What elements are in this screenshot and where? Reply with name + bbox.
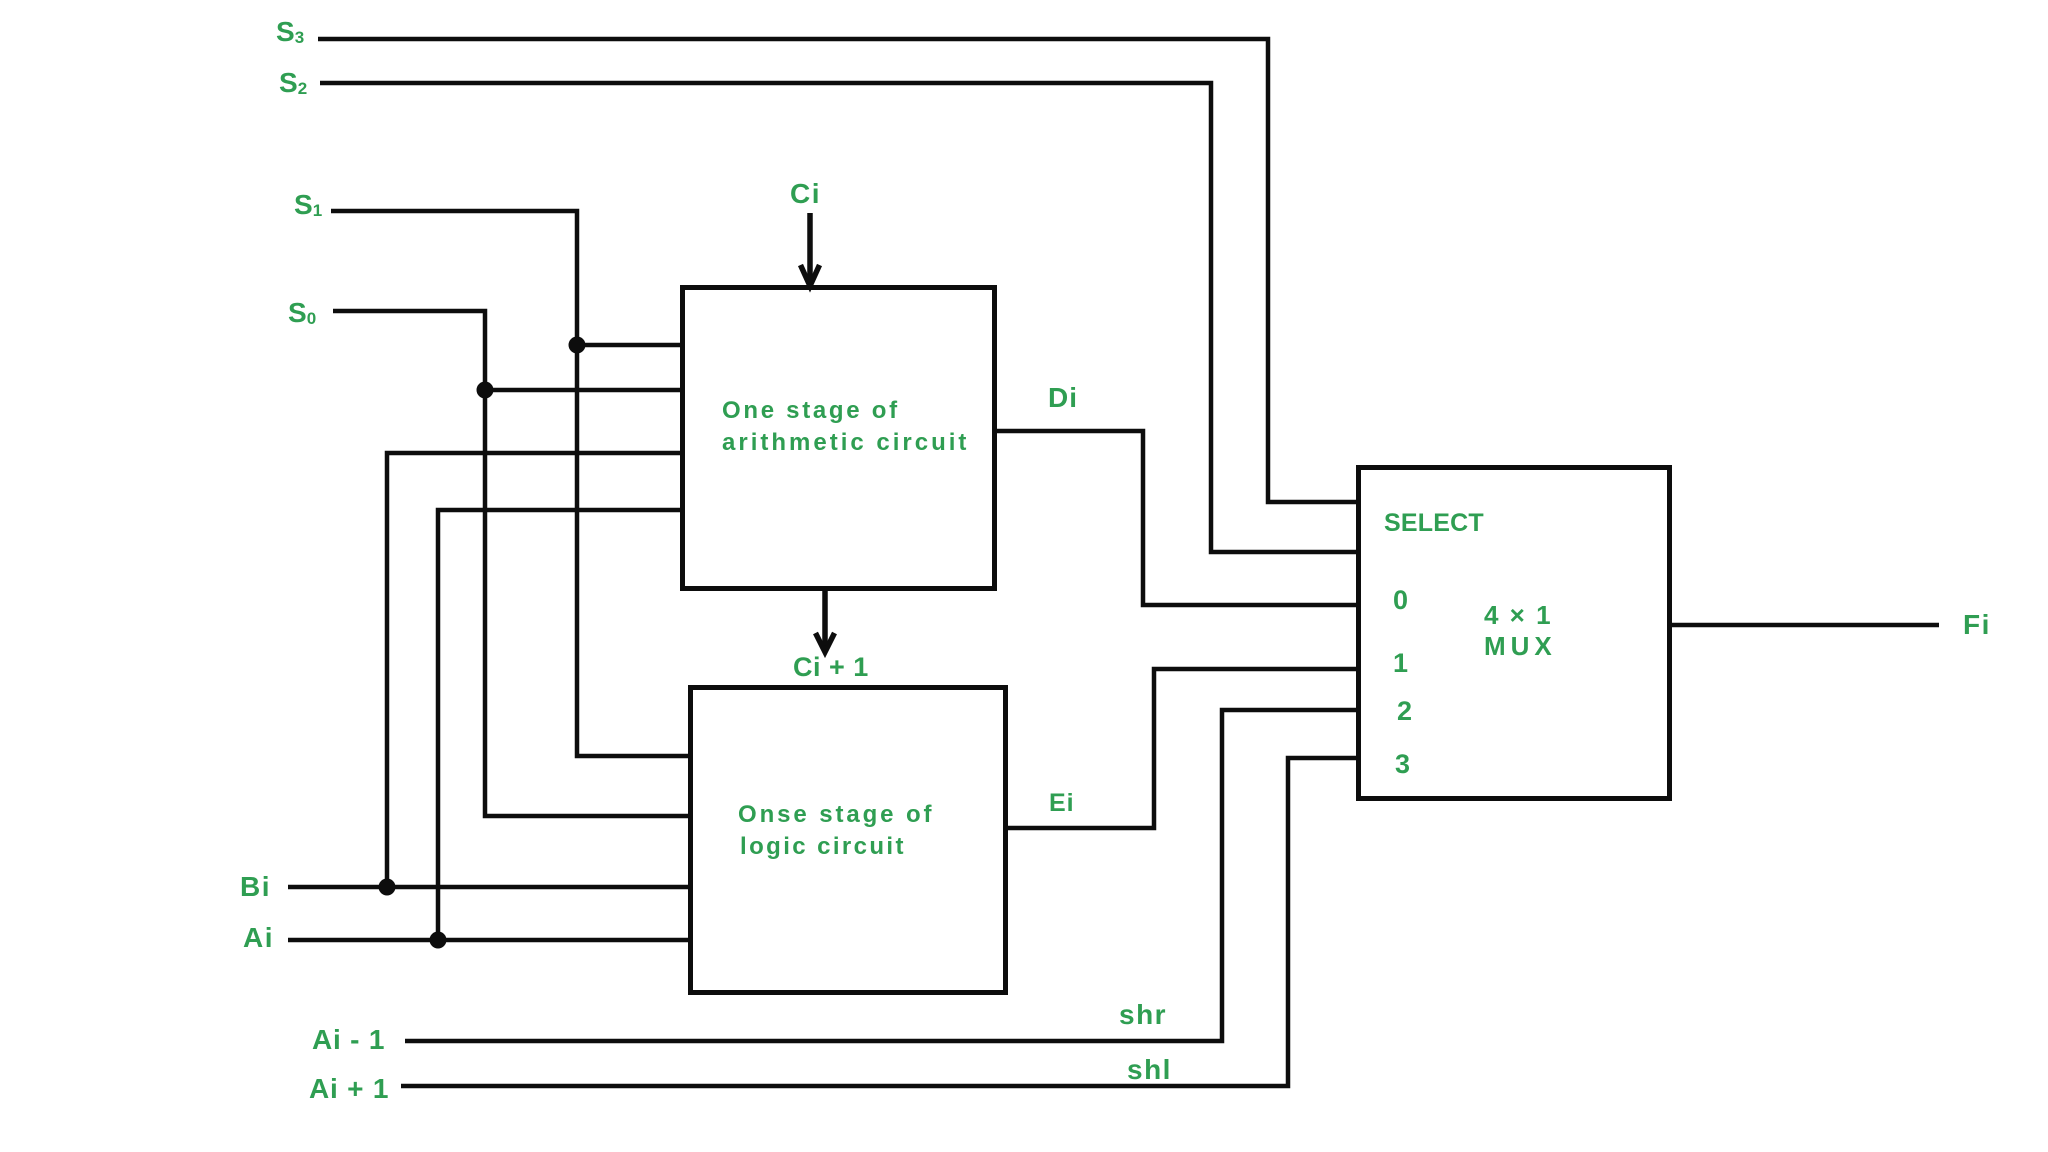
box U2 one stage of logic circuit [691, 688, 1006, 993]
wire S1 branch stub to arithmetic circuit input [577, 343, 682, 348]
wire Bi branch up to arithmetic circuit input [387, 453, 682, 887]
wire Ei: logic output to MUX input 1 [1008, 669, 1356, 828]
svg-text:Ci + 1: Ci + 1 [793, 652, 869, 682]
wire Ci+1 output arrow shaft [822, 591, 828, 649]
wire Bi horizontal into logic circuit [288, 885, 690, 890]
svg-text:S1: S1 [294, 189, 322, 220]
svg-text:4 × 1: 4 × 1 [1484, 600, 1553, 630]
wire S0 net: horizontal, vertical down to logic circuit input [333, 311, 690, 816]
wire Ai branch up to arithmetic circuit input [438, 510, 682, 940]
wire S3 net: horizontal run, vertical drop, into MUX SELECT [318, 39, 1356, 502]
wire Fi output [1672, 623, 1939, 628]
junction dot S1 branch [569, 337, 586, 354]
wire S1 net: horizontal, vertical down to logic circuit input [331, 211, 690, 756]
svg-text:1: 1 [1393, 648, 1408, 678]
svg-text:Ai: Ai [243, 922, 274, 953]
svg-text:2: 2 [1397, 696, 1412, 726]
svg-text:MUX: MUX [1484, 631, 1557, 661]
wire shl: Ai + 1 line to MUX input 3 [401, 758, 1356, 1086]
svg-text:S3: S3 [276, 16, 304, 47]
svg-text:Onse stage of: Onse stage of [738, 801, 934, 828]
svg-text:0: 0 [1393, 585, 1408, 615]
junction dot Ai branch [430, 932, 447, 949]
wire S0 branch stub to arithmetic circuit input [485, 388, 682, 393]
svg-text:shl: shl [1127, 1054, 1172, 1085]
svg-text:Ai + 1: Ai + 1 [309, 1073, 389, 1104]
wire Ci input arrow shaft [807, 213, 813, 285]
svg-text:S2: S2 [279, 67, 307, 98]
svg-text:Ai - 1: Ai - 1 [312, 1024, 385, 1055]
junction dot S0 branch [477, 382, 494, 399]
svg-text:Ei: Ei [1049, 789, 1075, 817]
wire shr: Ai - 1 line to MUX input 2 [405, 710, 1356, 1041]
svg-text:Bi: Bi [240, 871, 271, 902]
svg-text:SELECT: SELECT [1384, 509, 1484, 537]
wire Di: arithmetic output to MUX input 0 [997, 431, 1356, 605]
svg-text:Ci: Ci [790, 178, 821, 209]
svg-text:3: 3 [1395, 749, 1410, 779]
arrowhead Ci [801, 265, 820, 286]
box U3 4x1 MUX [1359, 468, 1670, 799]
wire Ai horizontal into logic circuit [288, 938, 690, 943]
box U1 one stage of arithmetic circuit [683, 288, 995, 589]
svg-text:logic circuit: logic circuit [740, 833, 906, 860]
arrowhead Ci+1 [816, 633, 835, 652]
junction dot Bi branch [379, 879, 396, 896]
svg-text:Fi: Fi [1963, 609, 1991, 640]
svg-text:arithmetic circuit: arithmetic circuit [722, 429, 969, 456]
svg-text:shr: shr [1119, 999, 1167, 1030]
svg-text:Di: Di [1048, 382, 1078, 413]
wire S2 net: horizontal run, vertical drop, into MUX SELECT [320, 83, 1356, 552]
svg-text:S0: S0 [288, 297, 316, 328]
svg-text:One stage of: One stage of [722, 397, 900, 424]
